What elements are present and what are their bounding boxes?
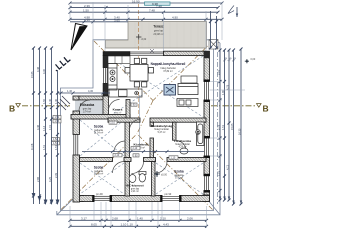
labels: WC [126,184,144,194]
svg-text:2,21 m²: 2,21 m² [131,190,139,193]
svg-text:4,30: 4,30 [88,89,94,93]
wall lower horizontal [80,158,113,162]
toilet WC [139,172,146,183]
wall S with windows [74,196,210,202]
roof eaves outline outer gutter [57,43,220,215]
szoba3 zone cross [156,163,203,194]
window W kitchen [104,68,108,84]
labels: kozlekedo [133,143,148,150]
labels: furdoszoba [174,139,191,149]
dining table [125,58,154,87]
top dim row A [69,2,224,5]
wall WC west [125,162,130,197]
window E3 [205,176,209,191]
svg-text:1,39: 1,39 [84,18,90,22]
door arc entry [79,100,90,111]
kitchen counter left [108,64,117,91]
section line B-B [22,105,256,107]
window S2 [162,196,180,200]
short right vertical dim with arrow [236,7,238,17]
svg-text:Közlekedő: Közlekedő [133,143,148,147]
right dim bottom arrows [219,197,242,205]
svg-text:16,35: 16,35 [238,128,242,135]
svg-text:13,08 m²: 13,08 m² [94,173,104,176]
left dim texts rotated [30,66,58,182]
top dim row E [70,20,128,23]
svg-text:Fürdőszoba: Fürdőszoba [174,139,191,143]
svg-text:37,82 m²: 37,82 m² [163,70,173,73]
svg-text:±0,00: ±0,00 [161,174,168,177]
wall kamra west [103,96,109,115]
slope marks [56,55,71,69]
svg-text:1,51: 1,51 [54,144,58,150]
section marker B right [257,104,269,114]
svg-text:11,24 m²: 11,24 m² [94,132,103,135]
highlighted dim box [145,2,171,5]
bathtub [197,122,205,146]
svg-text:-0,02: -0,02 [141,38,147,41]
right dim verticals [211,11,242,204]
labels: nappali [151,62,186,73]
svg-text:9,38: 9,38 [152,2,158,6]
door arc szoba1 [114,141,125,152]
svg-text:4,46: 4,46 [36,124,40,130]
svg-text:9,76 m²: 9,76 m² [175,177,183,180]
washing machine [196,130,201,135]
svg-text:2,10: 2,10 [115,154,120,157]
left dim verticals [34,48,58,204]
labels: kamra [113,108,123,115]
wall N living hatched [164,51,207,55]
svg-text:Munkahelyiség: Munkahelyiség [151,124,173,128]
living room zone cross [108,56,203,117]
terrace axis dashed line [138,4,140,52]
svg-text:11,08: 11,08 [30,143,34,150]
wall N eloszoba [79,96,103,100]
elevation cross site [245,59,249,63]
svg-text:4,43: 4,43 [163,223,169,227]
svg-text:B: B [263,104,269,114]
eloszoba top dim row [58,92,110,95]
kitchen counter top [108,56,130,64]
terrace elevation point [136,34,141,39]
door arc furdo [176,141,186,151]
door arc WC [132,162,144,174]
terrace floor slab [106,22,207,49]
window jamb marks S [92,195,181,202]
svg-text:1,50: 1,50 [83,9,89,13]
svg-text:WC-kézmosó: WC-kézmosó [126,184,144,188]
svg-text:gres lap: gres lap [154,29,164,33]
top dim row D [69,18,224,21]
bottom dim rows [70,220,207,226]
svg-text:2,68: 2,68 [112,217,118,221]
curved leader arrow [228,6,234,14]
window jamb marks E [204,80,211,193]
door arc szoba2 [113,162,125,174]
right dim texts rotated [217,56,242,176]
wall E with windows [204,51,210,201]
svg-text:2,86: 2,86 [36,176,40,182]
labels: eloszoba [80,103,95,113]
bottom extension lines [70,202,207,228]
roof ridge/hip dash-dot diagonals [61,41,213,210]
door arc kamra [109,100,120,111]
terrace glazed door [130,52,164,55]
window E1 [205,82,209,101]
right dim ticks [209,20,243,206]
svg-text:4,46: 4,46 [36,66,40,72]
svg-text:2,39: 2,39 [54,172,58,178]
north arrow [71,24,87,51]
sofa [178,84,198,95]
svg-text:3,17: 3,17 [81,217,87,221]
roof eaves outline inner [61,40,214,211]
svg-text:15,65: 15,65 [30,71,34,78]
window dim extension line right [210,89,246,91]
top dim row B [69,6,220,9]
svg-text:4,30: 4,30 [42,68,46,74]
svg-text:1,10: 1,10 [127,223,133,227]
svg-text:4,72: 4,72 [226,164,230,170]
svg-text:1,10: 1,10 [171,157,176,160]
labels: munkahelyiseg [151,124,173,134]
cabinet [177,99,198,107]
svg-text:1,51: 1,51 [221,124,225,130]
column with X at terrace NE corner [209,40,218,50]
svg-text:1,40: 1,40 [137,217,143,221]
corner blocks [73,195,84,202]
svg-text:2,06: 2,06 [187,217,193,221]
interior dim chain y151.5 [82,150,204,153]
wall munka-furdo divider [173,122,177,140]
wall W eloszoba + main [73,96,79,100]
svg-text:pm 90: pm 90 [165,193,172,196]
wall N kitchen solid [103,52,130,56]
wall kamra east / hall west [126,100,130,120]
svg-text:4,78: 4,78 [226,84,230,90]
section marker B left [9,104,20,114]
svg-text:4,25: 4,25 [48,176,52,182]
window parapet labels left [52,116,62,146]
svg-text:1,40: 1,40 [54,98,58,104]
svg-text:Kamra: Kamra [113,108,123,112]
svg-text:2,10: 2,10 [133,147,138,150]
svg-text:4,29 m²: 4,29 m² [179,146,187,149]
bottom dim ticks [69,219,209,228]
armchair selected [164,85,176,96]
roof hip diagonal SW [57,197,75,215]
svg-text:hideg burkolat: hideg burkolat [175,143,190,146]
top dim row C [69,11,220,14]
wall W kitchen [103,56,108,68]
svg-text:15,05: 15,05 [230,123,234,130]
svg-text:1,40: 1,40 [48,98,52,104]
svg-text:4,90: 4,90 [172,16,178,20]
svg-text:1,92 m²: 1,92 m² [114,112,122,115]
labels: szoba1 [94,125,104,135]
svg-text:Terasz: Terasz [153,25,164,29]
svg-text:2,10: 2,10 [160,217,166,221]
svg-text:3,65: 3,65 [114,18,120,22]
svg-text:3,74 m²: 3,74 m² [83,110,91,113]
svg-text:1,10: 1,10 [121,223,127,227]
door arc szoba3 [156,162,168,174]
roof hip diagonal SE [208,200,221,215]
window W szoba1 [74,134,78,155]
svg-text:2,39: 2,39 [84,4,90,8]
elevation cross szoba3 [154,171,160,177]
left dim bottom arrows [32,194,58,204]
svg-text:0,00: 0,00 [251,58,256,61]
svg-text:1,50: 1,50 [42,98,46,104]
svg-text:16,90: 16,90 [132,0,140,3]
door arc hall top [130,120,141,131]
top extension lines [70,2,222,51]
svg-text:B: B [9,104,15,114]
szoba2 zone cross [80,163,124,194]
kitchen counter bottom with sink [109,89,142,97]
svg-text:1,40: 1,40 [67,89,73,93]
svg-text:2,10: 2,10 [110,122,115,125]
svg-text:20,48 m²: 20,48 m² [153,32,163,36]
svg-text:Nappali-konyha-étkező: Nappali-konyha-étkező [151,62,186,66]
szoba1 zone cross [80,120,124,156]
svg-text:1,51: 1,51 [42,144,46,150]
svg-text:8,05: 8,05 [91,223,97,227]
window S1 [94,196,110,200]
svg-text:5,47 m²: 5,47 m² [158,131,166,134]
svg-text:1,01: 1,01 [48,124,52,130]
terrace label [153,25,164,37]
washbasin WC [129,175,136,183]
wall eloszoba-kamra bottom [71,115,130,120]
entry steps outside [58,96,70,110]
labels: szoba3 [174,170,184,180]
svg-text:pm 90: pm 90 [96,193,103,196]
wall hall east / WC east [150,122,154,126]
tv bench [181,76,197,83]
svg-text:gres lap: gres lap [131,187,140,190]
boxed dim 2,10 [109,103,178,160]
wall mid horizontal (north of munka/furdo) [108,118,140,122]
svg-text:Előszoba: Előszoba [80,103,95,107]
svg-text:1,14: 1,14 [42,125,46,131]
svg-text:7,48: 7,48 [149,9,155,13]
labels: szoba2 [94,166,104,176]
left dim ticks [32,47,59,204]
bottom dim texts [81,217,193,227]
washbasin furdo [180,148,188,154]
door direction arrows [150,49,154,53]
eloszoba room tint [75,100,103,115]
axis dash-dot vertical right [217,52,219,204]
window E2 [205,138,209,156]
svg-text:hideg burkolat: hideg burkolat [154,128,169,131]
